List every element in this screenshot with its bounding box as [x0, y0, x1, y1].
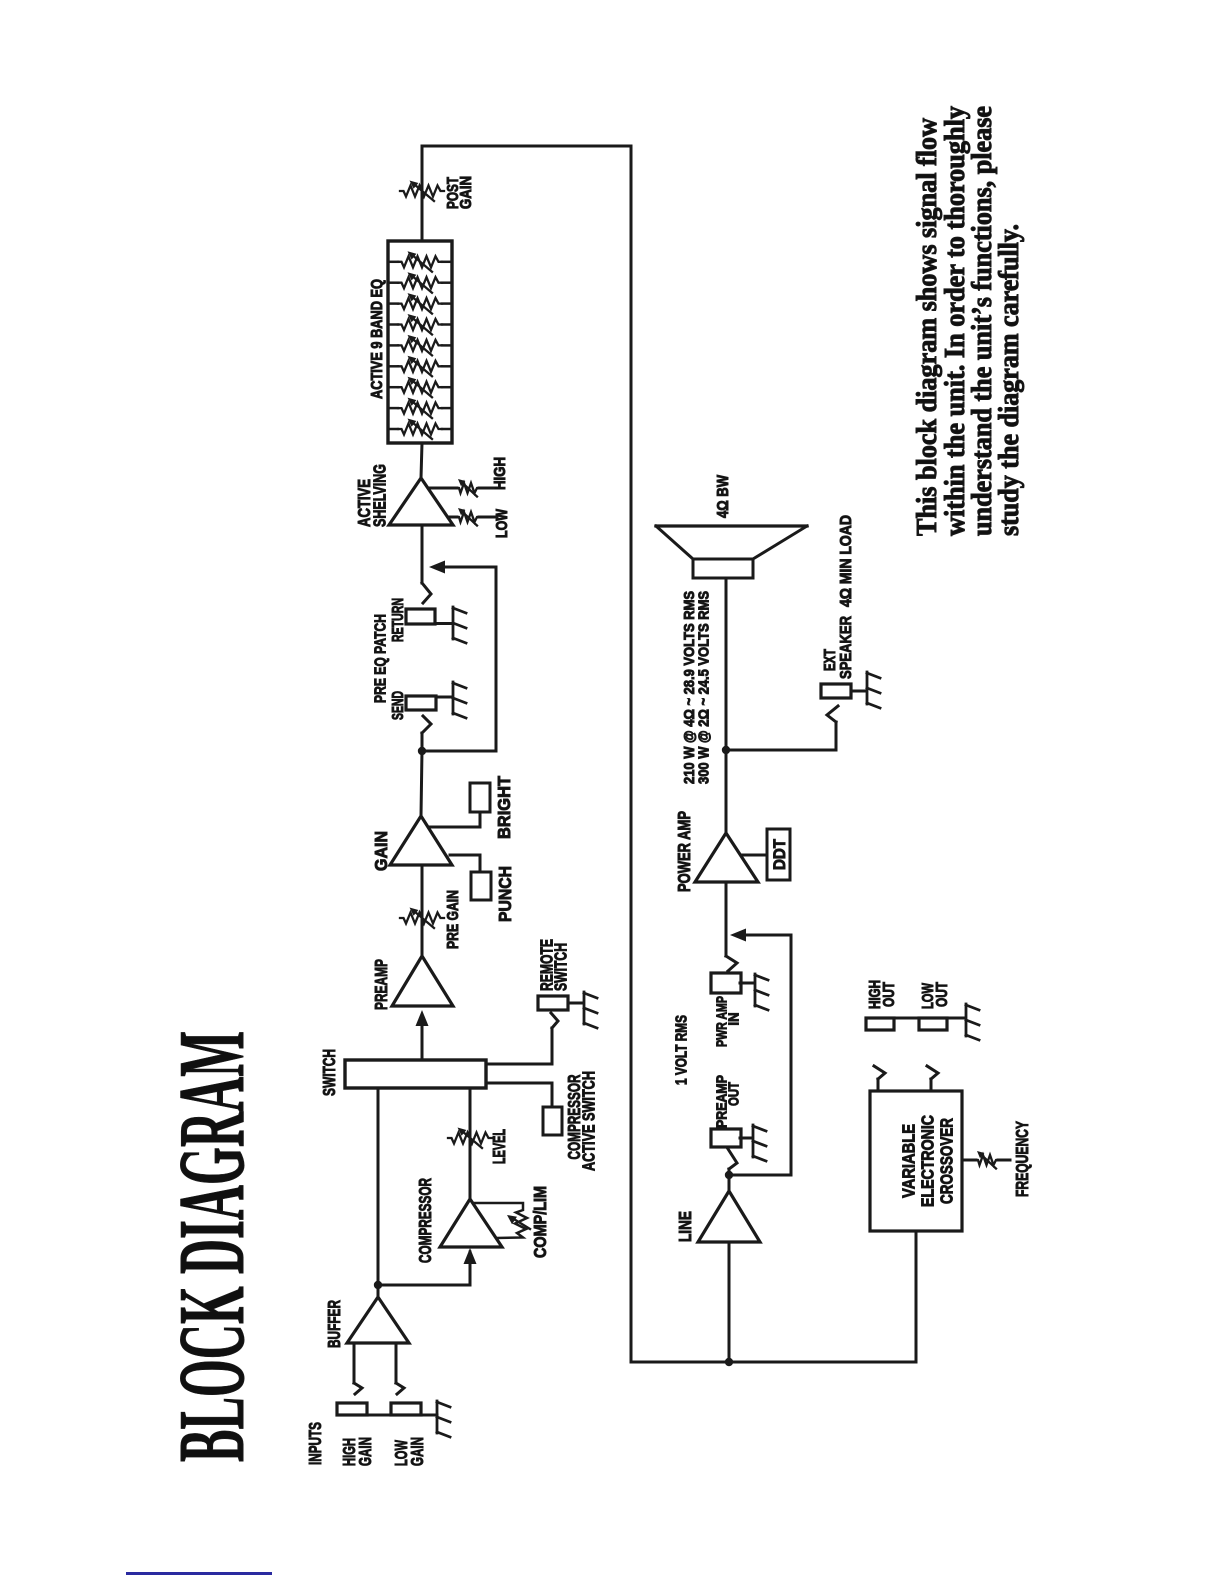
svg-text:SPEAKER: SPEAKER [838, 616, 855, 679]
svg-text:BLOCK DIAGRAM: BLOCK DIAGRAM [160, 1031, 264, 1462]
svg-text:OUT: OUT [726, 1082, 743, 1106]
svg-text:RETURN: RETURN [390, 598, 407, 642]
svg-text:GAIN: GAIN [407, 1437, 427, 1466]
svg-text:CROSSOVER: CROSSOVER [937, 1118, 957, 1204]
svg-text:COMP/LIM: COMP/LIM [530, 1186, 550, 1258]
svg-text:LINE: LINE [675, 1211, 695, 1242]
svg-text:PREAMP: PREAMP [371, 959, 391, 1010]
svg-text:BRIGHT: BRIGHT [494, 776, 514, 839]
svg-text:SWITCH: SWITCH [319, 1049, 339, 1096]
svg-text:PRE GAIN: PRE GAIN [445, 890, 462, 949]
svg-text:300 W @ 2Ω ~ 24.5 VOLTS RMS: 300 W @ 2Ω ~ 24.5 VOLTS RMS [696, 591, 713, 784]
svg-text:SEND: SEND [390, 691, 407, 720]
svg-text:LEVEL: LEVEL [489, 1129, 509, 1164]
svg-text:1 VOLT RMS: 1 VOLT RMS [674, 1015, 691, 1085]
svg-text:ELECTRONIC: ELECTRONIC [918, 1115, 938, 1207]
svg-text:ACTIVE SWITCH: ACTIVE SWITCH [579, 1071, 599, 1171]
svg-text:4Ω BW: 4Ω BW [715, 475, 732, 518]
svg-text:SHELVING: SHELVING [370, 464, 390, 527]
svg-text:study the diagram carefully.: study the diagram carefully. [994, 224, 1025, 536]
svg-text:PRE EQ PATCH: PRE EQ PATCH [373, 614, 390, 703]
svg-text:IN: IN [726, 1013, 743, 1026]
svg-text:GAIN: GAIN [371, 831, 391, 871]
svg-text:OUT: OUT [934, 982, 951, 1007]
svg-text:VARIABLE: VARIABLE [899, 1124, 919, 1198]
svg-text:This block diagram shows signa: This block diagram shows signal flow [912, 117, 943, 536]
svg-text:SWITCH: SWITCH [551, 943, 571, 991]
svg-text:LOW: LOW [494, 509, 511, 538]
svg-text:EXT: EXT [822, 649, 839, 671]
svg-text:GAIN: GAIN [458, 176, 475, 209]
svg-text:INPUTS: INPUTS [305, 1422, 325, 1465]
svg-text:PUNCH: PUNCH [495, 866, 515, 922]
svg-text:DDT: DDT [771, 839, 789, 870]
svg-text:GAIN: GAIN [355, 1437, 375, 1466]
svg-text:HIGH: HIGH [492, 457, 509, 490]
svg-text:4Ω MIN LOAD: 4Ω MIN LOAD [838, 515, 855, 607]
svg-text:POWER AMP: POWER AMP [674, 811, 694, 892]
svg-text:COMPRESSOR: COMPRESSOR [415, 1178, 435, 1263]
svg-text:BUFFER: BUFFER [324, 1300, 344, 1348]
svg-text:OUT: OUT [881, 982, 898, 1007]
svg-text:ACTIVE 9 BAND EQ: ACTIVE 9 BAND EQ [369, 279, 386, 399]
svg-text:FREQUENCY: FREQUENCY [1012, 1121, 1032, 1197]
